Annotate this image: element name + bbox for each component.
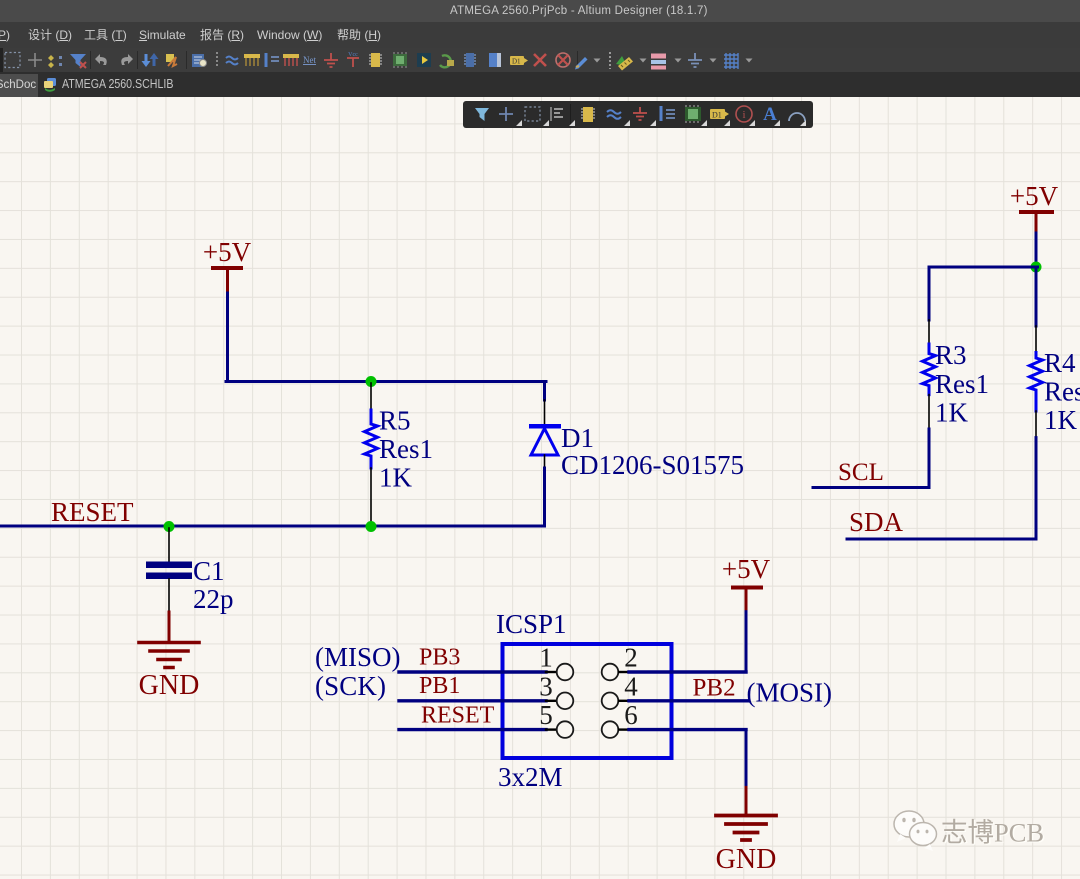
svg-text:(MISO): (MISO)	[315, 642, 401, 672]
svg-text:R5: R5	[379, 406, 411, 436]
main toolbar	[0, 48, 1080, 72]
svg-text:A: A	[763, 104, 777, 125]
svg-text:2: 2	[624, 643, 638, 673]
ground GND (C1)	[139, 612, 200, 701]
svg-text:CD1206-S01575: CD1206-S01575	[561, 450, 744, 480]
resistor R3	[923, 320, 990, 429]
wire R4 top	[1035, 267, 1038, 326]
svg-text:RESET: RESET	[51, 497, 134, 527]
svg-text:Res1: Res1	[379, 434, 433, 464]
node junction RESET/C1	[164, 521, 175, 532]
pin 6 circle	[602, 721, 619, 738]
svg-text:PB2: PB2	[693, 675, 736, 702]
svg-text:D1: D1	[512, 58, 521, 66]
svg-text:D1: D1	[712, 111, 722, 120]
svg-text:PB1: PB1	[419, 673, 460, 699]
wire right branch vertical (top rail to D1)	[543, 382, 546, 401]
floating toolbar	[463, 101, 813, 128]
wire pin6 to GND	[745, 730, 748, 789]
svg-text:C1: C1	[193, 556, 225, 586]
svg-text:SDA: SDA	[849, 507, 904, 537]
pin 3 wire	[399, 699, 546, 702]
svg-text:4: 4	[624, 671, 638, 701]
power +5V P2 (right)	[1010, 181, 1059, 233]
svg-text:D1: D1	[561, 423, 594, 453]
wire R3 to SCL	[813, 429, 929, 488]
pin 1 circle	[557, 664, 574, 681]
svg-text:3x2M: 3x2M	[498, 762, 563, 792]
svg-text:6: 6	[624, 700, 638, 730]
svg-text:志博PCB: 志博PCB	[941, 818, 1044, 848]
svg-text:1K: 1K	[379, 463, 413, 493]
watermark logo	[885, 803, 1080, 863]
svg-text:1K: 1K	[935, 398, 969, 428]
svg-text:+5V: +5V	[1010, 181, 1059, 211]
capacitor C1	[146, 528, 234, 614]
pin 6 wire	[619, 728, 629, 730]
wire pin2 to +5V	[745, 612, 748, 672]
svg-text:Net: Net	[303, 55, 316, 65]
svg-text:+5V: +5V	[722, 554, 771, 584]
node junction R3/R4 rail	[1031, 262, 1042, 273]
svg-text:ICSP1: ICSP1	[496, 609, 567, 639]
node junction top rail / R5	[366, 376, 377, 387]
svg-text:SCL: SCL	[838, 459, 884, 486]
wire rail to R3	[929, 267, 1038, 320]
wire +5V to top rail	[226, 293, 229, 382]
wire R4 to SDA	[847, 438, 1036, 539]
power +5V P1 (left)	[203, 237, 252, 293]
svg-text:Res1: Res1	[1044, 377, 1080, 407]
svg-text:22p: 22p	[193, 584, 234, 614]
menu bar	[0, 22, 1080, 48]
pin 5 circle	[557, 721, 574, 738]
resistor R5	[365, 383, 434, 524]
node junction RESET/R5	[366, 521, 377, 532]
svg-text:Vcc: Vcc	[348, 52, 358, 58]
resistor R4	[1030, 326, 1080, 438]
pin 5 wire	[399, 728, 546, 731]
svg-text:3: 3	[539, 671, 553, 701]
tab bar	[0, 72, 1080, 97]
svg-text:+5V: +5V	[203, 237, 252, 267]
svg-text:5: 5	[539, 700, 553, 730]
power +5V P3 (ICSP)	[722, 554, 771, 612]
wire +5V P2 down	[1035, 233, 1038, 267]
title bar	[0, 0, 1080, 22]
pin 2 circle	[602, 664, 619, 681]
svg-text:1K: 1K	[1044, 405, 1078, 435]
svg-text:(MOSI): (MOSI)	[747, 678, 833, 708]
svg-text:i: i	[742, 109, 745, 121]
wire top rail horizontal	[226, 380, 546, 383]
diode D1	[529, 400, 744, 480]
svg-text:1: 1	[539, 643, 553, 673]
pin 1 wire	[399, 670, 546, 673]
pin 4 wire	[619, 700, 629, 702]
svg-text:R3: R3	[935, 340, 967, 370]
svg-text:GND: GND	[716, 844, 777, 875]
svg-text:GND: GND	[139, 670, 200, 701]
svg-text:PB3: PB3	[419, 645, 460, 671]
connector ICSP1 body	[503, 644, 672, 758]
svg-text:Res1: Res1	[935, 369, 989, 399]
ground GND (ICSP)	[716, 787, 777, 875]
svg-text:(SCK): (SCK)	[315, 671, 386, 701]
pin 4 circle	[602, 693, 619, 710]
wire D1 to RESET rail	[0, 468, 545, 526]
svg-text:RESET: RESET	[421, 703, 495, 729]
pin 3 circle	[557, 693, 574, 710]
svg-text:R4: R4	[1044, 348, 1076, 378]
pin 2 wire	[619, 671, 629, 673]
